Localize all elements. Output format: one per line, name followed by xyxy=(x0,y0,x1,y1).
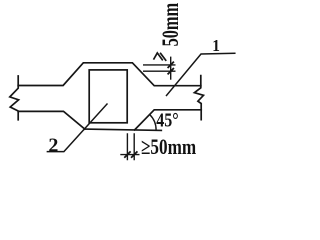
svg-text:45°: 45° xyxy=(156,109,178,131)
svg-text:50mm: 50mm xyxy=(158,3,183,47)
svg-text:1: 1 xyxy=(212,38,220,56)
svg-text:2: 2 xyxy=(48,135,58,157)
svg-text:≥50mm: ≥50mm xyxy=(141,135,197,160)
